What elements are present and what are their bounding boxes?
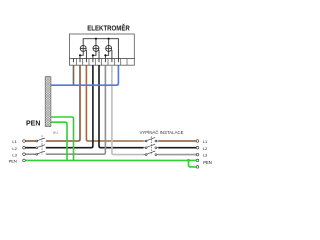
svg-text:PEN: PEN bbox=[9, 159, 17, 164]
wire PEN riser to meter bbox=[73, 65, 75, 85]
svg-text:L2: L2 bbox=[203, 146, 208, 151]
right L2 line to terminal bbox=[158, 147, 196, 149]
vypinac switch pole 2 bbox=[144, 144, 159, 149]
vypinac link dashed bbox=[150, 137, 152, 156]
wire L3 out gray bbox=[112, 65, 144, 154]
meter element 1 bbox=[80, 45, 86, 58]
meter element 3 bbox=[105, 39, 112, 59]
wire L1 out brown bbox=[86, 65, 143, 141]
svg-text:L2: L2 bbox=[12, 146, 17, 151]
svg-text:ELEKTROMĚR: ELEKTROMĚR bbox=[87, 24, 130, 33]
wire L2 in black bbox=[46, 65, 93, 148]
green PEN line across bbox=[26, 159, 197, 161]
meter element 2 bbox=[93, 39, 99, 59]
svg-text:PEN: PEN bbox=[203, 160, 212, 165]
svg-text:HU: HU bbox=[53, 131, 59, 135]
svg-text:L1: L1 bbox=[12, 139, 17, 144]
vypinac switch pole 3 bbox=[144, 151, 159, 156]
svg-text:VYPÍNAČ INSTALACE: VYPÍNAČ INSTALACE bbox=[140, 129, 184, 135]
right terminal L1 bbox=[196, 140, 199, 143]
terminal strip bbox=[70, 59, 135, 66]
svg-text:L1: L1 bbox=[203, 139, 208, 144]
svg-text:L3: L3 bbox=[12, 152, 17, 157]
svg-text:PEN: PEN bbox=[26, 121, 40, 128]
wire L2 out black bbox=[99, 65, 144, 148]
right terminal PEN upper bbox=[196, 159, 199, 162]
switch HU link dashed bbox=[41, 136, 43, 155]
green wire B from busbar bbox=[51, 122, 67, 160]
wire N blue bbox=[51, 65, 119, 85]
green junction dot bbox=[187, 159, 190, 162]
svg-text:L3: L3 bbox=[203, 152, 208, 157]
switch HU blades bbox=[36, 138, 45, 155]
terminal strip dividers bbox=[77, 59, 127, 66]
right L3 line to terminal bbox=[158, 154, 196, 156]
PEN busbar hatched bbox=[45, 77, 51, 127]
right L1 line to terminal bbox=[158, 140, 196, 142]
right terminal PEN lower bbox=[196, 166, 199, 169]
green branch to lower PEN terminal bbox=[189, 160, 197, 167]
wire L3 in gray bbox=[46, 65, 106, 154]
right terminal L2 bbox=[196, 146, 199, 149]
meter box outline bbox=[70, 34, 135, 59]
strip internal stubs bbox=[74, 59, 119, 63]
vypinac switch pole 1 bbox=[144, 137, 159, 142]
wire L1 in brown bbox=[46, 65, 80, 141]
right terminal L3 bbox=[196, 153, 199, 156]
green wire A from busbar bbox=[51, 117, 74, 160]
meter bus wire bbox=[83, 39, 118, 59]
bus junction node dots bbox=[95, 38, 97, 40]
